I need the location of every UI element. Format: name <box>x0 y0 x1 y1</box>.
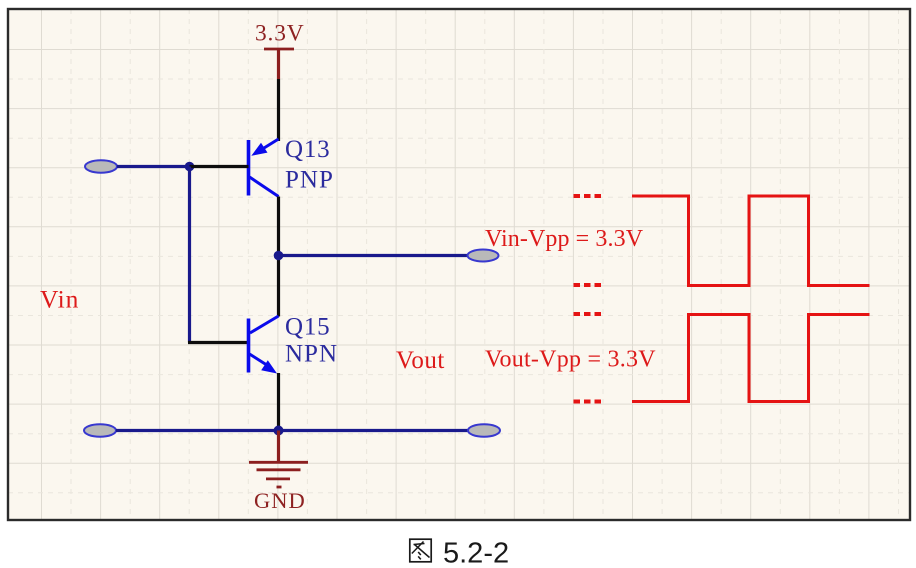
power rail 3.3V symbol <box>264 49 294 79</box>
wire output node to output port <box>279 254 468 257</box>
wire ground rail <box>116 429 468 432</box>
svg-text:Q13: Q13 <box>285 136 330 163</box>
svg-text:3.3V: 3.3V <box>255 21 305 47</box>
transistor Q13 PNP <box>249 139 279 197</box>
junction ground node <box>274 426 284 436</box>
svg-text:GND: GND <box>254 488 306 513</box>
dashes Vout high level <box>574 312 602 316</box>
dashes Vout low level <box>574 400 602 404</box>
dashes Vin low level <box>574 283 602 287</box>
ground <box>249 431 308 488</box>
wire Q13 collector to Q15 collector <box>277 197 280 317</box>
dashes Vin high level <box>574 194 602 198</box>
svg-text:PNP: PNP <box>285 167 334 194</box>
port Vin (input ellipse) <box>85 160 117 172</box>
wire to Q15 base <box>188 341 249 344</box>
svg-text:5.2-2: 5.2-2 <box>443 538 509 568</box>
transistor Q15 NPN <box>249 316 279 374</box>
svg-text:Q15: Q15 <box>285 314 330 341</box>
waveform Vout square wave <box>632 315 870 402</box>
svg-text:Vin: Vin <box>40 285 79 314</box>
wire node A to Q13 base <box>190 165 249 168</box>
wire node A down to Q15 base level <box>188 167 191 343</box>
port ground rail left <box>84 424 116 436</box>
svg-text:Vin-Vpp = 3.3V: Vin-Vpp = 3.3V <box>485 226 644 252</box>
caption character 图 <box>410 539 431 562</box>
wire 3.3V to Q13 emitter <box>277 79 280 141</box>
junction output node <box>274 251 284 261</box>
svg-text:NPN: NPN <box>285 341 338 368</box>
port ground rail right <box>468 424 500 436</box>
junction node A <box>185 162 195 172</box>
wire input port to node A <box>117 165 190 168</box>
waveform Vin square wave <box>632 196 870 286</box>
svg-text:Vout: Vout <box>396 347 445 374</box>
wire Q15 emitter to ground rail <box>277 373 280 431</box>
port Vout (output ellipse) <box>468 250 499 262</box>
svg-text:Vout-Vpp = 3.3V: Vout-Vpp = 3.3V <box>485 347 656 373</box>
